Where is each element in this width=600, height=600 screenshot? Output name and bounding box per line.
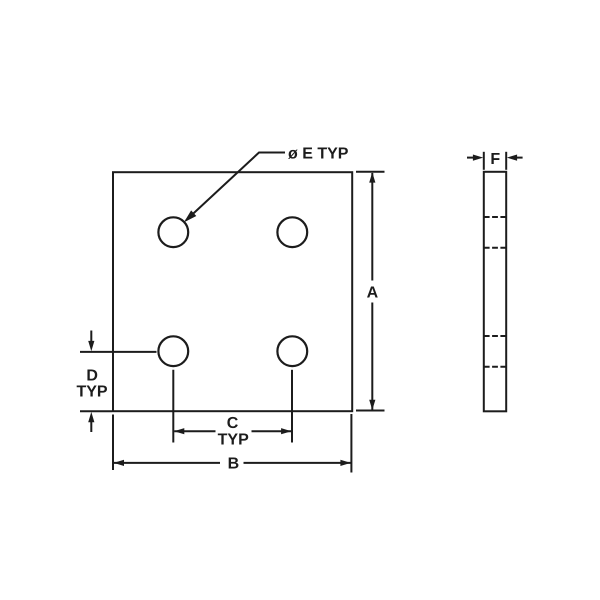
dimension B extension line right xyxy=(350,414,352,473)
dimension A line xyxy=(369,172,375,410)
dimension F extension line right xyxy=(505,152,507,170)
dimension B line xyxy=(114,460,351,466)
label C TYP xyxy=(218,431,249,448)
dimension D lower arrow xyxy=(88,412,94,432)
dimension D upper arrow xyxy=(88,331,94,352)
label ø E TYP xyxy=(288,145,349,162)
svg-text:D: D xyxy=(86,368,98,385)
svg-text:ø E TYP: ø E TYP xyxy=(288,145,349,162)
label F xyxy=(490,151,500,168)
hidden hole line 4 xyxy=(484,366,506,368)
label B xyxy=(228,456,240,473)
dimension D extension line upper (hole center) xyxy=(80,351,157,353)
svg-text:F: F xyxy=(490,151,500,168)
hole bottom-right xyxy=(277,336,307,366)
dimension C line xyxy=(174,428,291,434)
svg-text:C: C xyxy=(227,415,239,432)
plate side view outline xyxy=(484,172,506,411)
hidden hole line 1 xyxy=(484,216,506,218)
svg-text:TYP: TYP xyxy=(218,431,249,448)
hidden hole line 3 xyxy=(484,335,506,337)
dimension C extension line left xyxy=(172,370,174,443)
hole top-right xyxy=(277,217,307,247)
hidden hole line 2 xyxy=(484,247,506,249)
dimension A extension line bottom xyxy=(356,410,385,412)
dimension A extension line top xyxy=(356,171,385,173)
leader line for hole diameter E xyxy=(185,153,285,222)
hole top-left xyxy=(158,217,188,247)
label A xyxy=(367,284,379,301)
dimension F left arrow xyxy=(467,155,483,161)
dimension F extension line left xyxy=(483,152,485,170)
dimension D extension line lower (plate bottom) xyxy=(80,410,112,412)
svg-text:A: A xyxy=(367,284,379,301)
hole bottom-left xyxy=(158,336,188,366)
svg-text:TYP: TYP xyxy=(76,383,107,400)
dimension C extension line right xyxy=(291,370,293,443)
dimension B extension line left xyxy=(112,415,114,471)
label C xyxy=(227,415,239,432)
label D TYP xyxy=(76,383,107,400)
label D xyxy=(86,368,98,385)
dimension F right arrow xyxy=(507,155,523,161)
svg-text:B: B xyxy=(228,456,240,473)
plate front view outline xyxy=(113,172,352,411)
